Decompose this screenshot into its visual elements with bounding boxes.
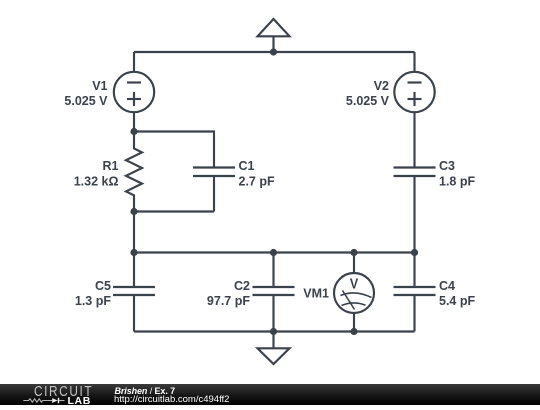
capacitor C2 (253, 253, 295, 332)
wire node A to C1 top (134, 132, 214, 168)
svg-text:97.7 pF: 97.7 pF (207, 294, 250, 308)
junction bottom rail / VM1 (350, 328, 357, 335)
svg-text:C5: C5 (95, 279, 111, 293)
junction (R1 bottom / C1 bottom) (130, 208, 137, 215)
voltage source V1 (114, 52, 154, 132)
svg-text:5.4 pF: 5.4 pF (439, 294, 475, 308)
label V1 value (64, 79, 108, 108)
wire C1 bottom to node B (134, 212, 214, 253)
svg-text:5.025 V: 5.025 V (64, 94, 108, 108)
junction middle rail / VM1 (350, 249, 357, 256)
svg-text:C1: C1 (239, 159, 255, 173)
junction bottom rail / ground (270, 328, 277, 335)
power supply symbol (top) (258, 19, 290, 52)
svg-text:C2: C2 (234, 279, 250, 293)
label R1 value (74, 159, 119, 188)
label V2 value (346, 79, 390, 108)
svg-text:VM1: VM1 (303, 287, 329, 301)
svg-text:1.32 kΩ: 1.32 kΩ (74, 174, 119, 188)
label C5 value (75, 279, 111, 308)
svg-text:1.8 pF: 1.8 pF (439, 174, 475, 188)
wire top rail (134, 51, 415, 53)
junction middle rail right (411, 249, 418, 256)
svg-text:2.7 pF: 2.7 pF (239, 174, 275, 188)
CircuitLab logo resistor+diode glyph (20, 395, 70, 406)
label C2 value (207, 279, 250, 308)
label C4 value (439, 279, 475, 308)
footer url text (114, 395, 229, 405)
voltmeter VM1 (334, 253, 374, 332)
footer title text (115, 386, 176, 396)
svg-text:1.3 pF: 1.3 pF (75, 294, 111, 308)
junction middle rail / C2 (270, 249, 277, 256)
svg-text:C3: C3 (439, 159, 455, 173)
wire bottom rail (134, 330, 415, 332)
label C3 value (439, 159, 475, 188)
svg-text:V2: V2 (374, 79, 389, 93)
svg-text:R1: R1 (103, 159, 119, 173)
label C1 value (239, 159, 275, 188)
junction middle rail left (130, 249, 137, 256)
svg-text:5.025 V: 5.025 V (346, 94, 390, 108)
node A junction (V1 bottom / R1 / C1 top) (130, 128, 137, 135)
ground (258, 332, 290, 365)
capacitor C4 (394, 253, 436, 332)
CircuitLab logo wordmark CIRCUIT (34, 387, 93, 397)
capacitor C3 (394, 168, 436, 253)
voltage source V2 (394, 52, 434, 168)
resistor R1 (126, 132, 142, 212)
svg-text:V1: V1 (92, 79, 107, 93)
svg-text:C4: C4 (439, 279, 455, 293)
wire middle rail (134, 251, 415, 253)
svg-text:V: V (350, 274, 359, 291)
CircuitLab logo wordmark LAB (68, 396, 91, 406)
capacitor C1 (193, 168, 235, 212)
footer bar (0, 384, 540, 405)
capacitor C5 (113, 253, 155, 332)
junction top rail / power (270, 48, 277, 55)
